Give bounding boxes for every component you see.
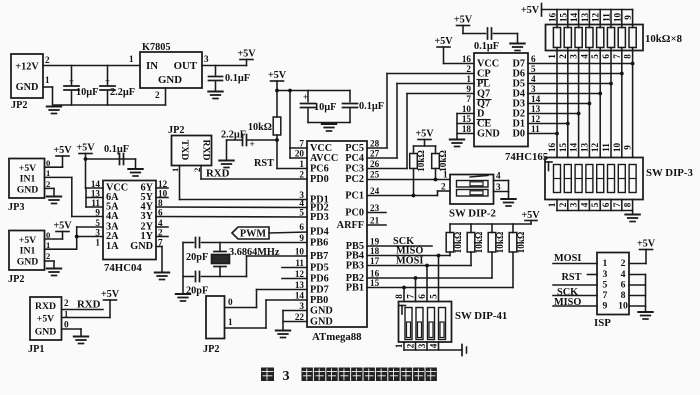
svg-text:25: 25 bbox=[370, 170, 380, 180]
svg-text:GND: GND bbox=[17, 185, 39, 196]
svg-text:ISP: ISP bbox=[594, 317, 611, 329]
svg-text:1: 1 bbox=[45, 75, 50, 85]
svg-text:PC1: PC1 bbox=[345, 191, 364, 202]
capacitor C5 0.1uF bbox=[343, 91, 384, 123]
power +5V at 74HC04 bbox=[76, 143, 95, 189]
wire bottom return rail bbox=[54, 104, 166, 106]
svg-text:11: 11 bbox=[601, 143, 611, 152]
svg-text:13: 13 bbox=[295, 280, 305, 290]
net label MISO bbox=[396, 246, 423, 257]
svg-text:3Y: 3Y bbox=[140, 211, 153, 222]
resistor R5 10k SPI pullup bbox=[467, 224, 484, 253]
ATmega88 PD5 PD6 stubs bbox=[282, 268, 307, 279]
power +5V at JP3 bbox=[53, 145, 72, 167]
caption figure 3 spray dust controller hardware circuit bbox=[261, 368, 437, 385]
power +5V at K7805 output bbox=[237, 49, 256, 66]
svg-text:18: 18 bbox=[462, 124, 472, 134]
svg-text:3: 3 bbox=[204, 54, 209, 64]
svg-text:11: 11 bbox=[531, 124, 540, 134]
svg-text:7: 7 bbox=[466, 94, 471, 104]
svg-text:1A: 1A bbox=[106, 241, 119, 252]
svg-text:6: 6 bbox=[601, 202, 611, 207]
wire JP3 pin0 to +5V bbox=[45, 166, 63, 168]
capacitor C10 0.1uF series bbox=[463, 28, 518, 52]
svg-text:PD6: PD6 bbox=[310, 274, 329, 285]
svg-text:+: + bbox=[303, 92, 308, 102]
svg-text:4: 4 bbox=[531, 74, 536, 84]
svg-text:9: 9 bbox=[299, 233, 304, 243]
svg-text:GND: GND bbox=[310, 317, 333, 328]
ATmega88 AVCC stub bbox=[290, 148, 307, 158]
shift register U4 74HC165 box bbox=[474, 53, 548, 163]
svg-text:3: 3 bbox=[282, 368, 289, 384]
svg-text:1: 1 bbox=[95, 238, 100, 248]
svg-text:2: 2 bbox=[466, 64, 471, 74]
svg-text:2: 2 bbox=[155, 90, 160, 100]
svg-text:PC3: PC3 bbox=[345, 164, 364, 175]
svg-text:GND: GND bbox=[35, 327, 57, 338]
connector JP2 serial box bbox=[168, 125, 212, 166]
svg-text:22: 22 bbox=[295, 312, 305, 322]
net label MOSI bbox=[396, 256, 423, 267]
wire PC1 to SW DIP-2 pin 2 bbox=[367, 191, 450, 196]
svg-text:+5V: +5V bbox=[53, 145, 72, 156]
svg-text:SW DIP-41: SW DIP-41 bbox=[455, 310, 507, 322]
wire PC4 to 74HC165 PL bbox=[367, 84, 474, 159]
wire K7805 GND pin 2 bbox=[165, 88, 167, 105]
resistor R2 10k bbox=[410, 150, 426, 172]
resistor R4 10k SPI pullup bbox=[446, 224, 463, 253]
svg-text:GND: GND bbox=[477, 129, 500, 140]
svg-text:9: 9 bbox=[623, 145, 633, 150]
svg-text:JP1: JP1 bbox=[28, 344, 45, 355]
svg-text:PD4: PD4 bbox=[310, 227, 329, 238]
svg-text:7: 7 bbox=[299, 139, 304, 149]
svg-text:IN1: IN1 bbox=[20, 246, 36, 257]
JP2 serial pin 1 label bbox=[170, 168, 180, 172]
svg-text:4: 4 bbox=[429, 343, 439, 348]
svg-text:0.1µF: 0.1µF bbox=[474, 41, 499, 52]
svg-text:1: 1 bbox=[46, 168, 50, 178]
SW DIP-2 switch element 2 bbox=[457, 190, 489, 197]
svg-text:10: 10 bbox=[612, 13, 622, 23]
svg-text:5: 5 bbox=[95, 218, 100, 228]
JP2 sensor pin 0 label bbox=[46, 230, 50, 240]
svg-text:JP2: JP2 bbox=[168, 125, 185, 136]
svg-text:13: 13 bbox=[580, 13, 590, 23]
JP1 pin 1 label bbox=[64, 309, 68, 319]
svg-text:D0: D0 bbox=[512, 129, 525, 140]
svg-text:2.2µF: 2.2µF bbox=[110, 87, 135, 98]
svg-text:K7805: K7805 bbox=[142, 42, 170, 53]
ground below C10 bbox=[510, 44, 525, 51]
svg-text:12: 12 bbox=[531, 114, 541, 124]
wire +12V rail JP2 to K7805 IN bbox=[43, 65, 140, 67]
svg-text:0.1µF: 0.1µF bbox=[225, 73, 250, 84]
wire PC3 to 74HC165 Q7 bbox=[367, 94, 474, 169]
svg-text:16: 16 bbox=[370, 269, 380, 279]
svg-text:8: 8 bbox=[623, 54, 633, 59]
svg-text:15: 15 bbox=[558, 143, 568, 153]
svg-text:2: 2 bbox=[621, 258, 626, 269]
resistor R7 10k SPI pullup bbox=[509, 224, 526, 253]
connector JP1 box bbox=[28, 297, 62, 355]
74HC165 grounded pins bracket bbox=[457, 114, 474, 140]
wire 74HC04 VCC bracket pins 14 13 11 bbox=[86, 188, 104, 207]
ground below C7 bbox=[128, 169, 143, 176]
wire DIP-2 pins to ground bbox=[494, 181, 509, 199]
svg-text:+5V: +5V bbox=[268, 70, 287, 81]
wire PB5 SCK stub bbox=[367, 245, 432, 247]
svg-text:4: 4 bbox=[579, 54, 589, 59]
svg-text:10kΩ: 10kΩ bbox=[248, 122, 272, 133]
svg-text:AVCC: AVCC bbox=[310, 153, 338, 164]
wire JP2 pin0 to +5V bbox=[45, 238, 63, 240]
svg-text:15: 15 bbox=[462, 114, 472, 124]
svg-text:26: 26 bbox=[370, 159, 380, 169]
svg-text:PC4: PC4 bbox=[345, 153, 364, 164]
regulator U3 K7805 box bbox=[140, 42, 202, 88]
svg-text:13: 13 bbox=[531, 104, 541, 114]
wire JP2 sensor GND bbox=[45, 261, 55, 268]
SW DIP-3 bottom pins and ground rail bbox=[547, 200, 633, 215]
JP2 sensor pin 2 label bbox=[46, 251, 50, 261]
svg-text:+5V: +5V bbox=[19, 235, 36, 246]
svg-text:MOSI: MOSI bbox=[554, 253, 581, 264]
svg-text:3: 3 bbox=[496, 182, 501, 192]
JP3 pin 0 label bbox=[46, 158, 50, 168]
JP2 sensor pin 1 label bbox=[46, 240, 50, 250]
svg-text:1: 1 bbox=[466, 74, 471, 84]
svg-text:GND: GND bbox=[17, 257, 39, 268]
wire K7805 OUT to +5V bbox=[202, 65, 247, 67]
74HC04 right pin numbers bbox=[158, 179, 168, 248]
74HC04 left pin numbers bbox=[91, 179, 101, 248]
svg-text:+: + bbox=[250, 139, 255, 149]
svg-text:74HC165: 74HC165 bbox=[505, 151, 548, 163]
junction dots data bus staircase bbox=[555, 62, 634, 136]
svg-text:9: 9 bbox=[623, 15, 633, 20]
wire branch to ATmega VCC bbox=[288, 89, 292, 148]
wire R2 to PC1 line bbox=[412, 169, 416, 198]
resistor R1 10k reset pullup bbox=[248, 117, 281, 135]
wire PC2 to SW DIP-2 pin 1 bbox=[367, 179, 450, 181]
SW DIP-2 pin 3 label bbox=[496, 182, 501, 192]
svg-text:5: 5 bbox=[603, 280, 608, 291]
svg-text:+: + bbox=[69, 76, 74, 86]
74HC04 output stubs 6Y 5Y 2Y 1Y bbox=[156, 188, 168, 237]
svg-text:2: 2 bbox=[46, 251, 50, 261]
svg-text:PC2: PC2 bbox=[345, 174, 364, 185]
svg-text:+5V: +5V bbox=[637, 239, 656, 250]
svg-text:PB1: PB1 bbox=[346, 283, 364, 294]
wire +5V branch bbox=[275, 89, 350, 93]
hex inverter U2 74HC04 box bbox=[103, 181, 156, 275]
svg-text:4: 4 bbox=[299, 198, 304, 208]
capacitor C2 2.2uF bbox=[100, 66, 135, 106]
wire JP2 pin0 to PD7 bbox=[225, 290, 308, 308]
JP2 bottom pin 0 label bbox=[228, 297, 233, 307]
svg-text:9: 9 bbox=[95, 208, 100, 218]
wire resistor tops bracket bbox=[414, 146, 436, 154]
svg-text:+5V: +5V bbox=[237, 49, 256, 60]
svg-text:SW DIP-3: SW DIP-3 bbox=[646, 167, 693, 179]
svg-text:18: 18 bbox=[370, 246, 380, 256]
svg-text:+5V: +5V bbox=[415, 129, 434, 140]
SW DIP-2 pin 2 label bbox=[441, 182, 446, 192]
wire RXD to PD0 bbox=[201, 166, 307, 180]
capacitor C9 20pF bottom bbox=[183, 272, 247, 297]
svg-text:PD5: PD5 bbox=[310, 263, 329, 274]
wires ISP even pins to ground rail bbox=[629, 275, 646, 312]
svg-text:9: 9 bbox=[603, 301, 608, 312]
power +5V at ISP bbox=[629, 239, 656, 264]
svg-text:12: 12 bbox=[295, 269, 305, 279]
capacitor C8 20pF top bbox=[183, 238, 307, 264]
svg-text:10kΩ: 10kΩ bbox=[474, 232, 484, 254]
wire 74HC04 GND to ground bbox=[156, 247, 162, 273]
svg-text:1: 1 bbox=[547, 202, 557, 207]
svg-text:+5V: +5V bbox=[454, 15, 473, 26]
svg-text:2: 2 bbox=[45, 55, 50, 65]
net label SCK bbox=[393, 236, 414, 247]
svg-text:10kΩ: 10kΩ bbox=[453, 232, 463, 254]
ground below SW DIP-2 bbox=[501, 199, 516, 206]
svg-text:JP2: JP2 bbox=[8, 274, 25, 285]
JP2 serial pin 2 label bbox=[192, 168, 202, 172]
svg-text:10: 10 bbox=[462, 104, 472, 114]
capacitor C3 0.1uF at K7805 output bbox=[209, 66, 250, 92]
connector JP2 sensor box bbox=[8, 231, 45, 286]
svg-text:RST: RST bbox=[254, 158, 274, 169]
svg-text:1: 1 bbox=[129, 54, 134, 64]
svg-text:7: 7 bbox=[612, 54, 622, 59]
net label MISO at ISP bbox=[553, 297, 597, 308]
svg-text:7: 7 bbox=[612, 202, 622, 207]
JP2 pin 2 label bbox=[45, 55, 50, 65]
svg-text:14: 14 bbox=[531, 94, 541, 104]
ATmega88 AREF stub bbox=[367, 224, 386, 226]
ground below JP2 bbox=[47, 107, 62, 114]
svg-text:1: 1 bbox=[394, 343, 404, 348]
svg-text:1: 1 bbox=[547, 54, 557, 59]
JP3 pin 1 label bbox=[46, 168, 50, 178]
svg-text:3: 3 bbox=[569, 54, 579, 59]
connector J1 ISP box bbox=[594, 253, 629, 330]
svg-text:5: 5 bbox=[590, 54, 600, 59]
microcontroller U1 ATmega88 box bbox=[307, 141, 367, 343]
svg-text:RXD: RXD bbox=[35, 301, 56, 312]
capacitor C4 10uF bbox=[301, 91, 337, 123]
wire JP3 IN1 to 74HC04 4A bbox=[45, 177, 104, 216]
connector JP2 (+12V input) box bbox=[11, 54, 43, 111]
svg-text:0.1µF: 0.1µF bbox=[359, 101, 384, 112]
svg-text:10kΩ: 10kΩ bbox=[416, 150, 426, 172]
power +5V decoupling at top bbox=[454, 15, 473, 34]
K7805 pin 3 label bbox=[204, 54, 209, 64]
ground below ISP bbox=[638, 312, 653, 319]
power +5V at resistor pack bbox=[521, 4, 633, 17]
resistor R3 10k bbox=[432, 150, 448, 172]
wire cap bottoms bracket bbox=[308, 122, 350, 124]
svg-text:IN1: IN1 bbox=[20, 174, 36, 185]
svg-text:6: 6 bbox=[601, 54, 611, 59]
svg-text:+5V: +5V bbox=[434, 36, 453, 47]
svg-text:10µF: 10µF bbox=[314, 102, 336, 113]
power +5V main rail bbox=[268, 70, 287, 117]
ground below C4 C5 bbox=[322, 124, 337, 131]
svg-text:3: 3 bbox=[569, 202, 579, 207]
switch SW DIP-41 box bbox=[399, 302, 508, 343]
svg-text:10: 10 bbox=[618, 301, 628, 312]
ground below SW DIP-3 bbox=[625, 215, 640, 222]
wire TXD to PD1 bbox=[180, 166, 308, 200]
svg-text:19: 19 bbox=[370, 237, 380, 247]
switch SW DIP-2 box bbox=[449, 175, 496, 220]
svg-text:27: 27 bbox=[370, 149, 380, 159]
net label SCK at ISP bbox=[553, 287, 597, 298]
svg-text:4A: 4A bbox=[106, 211, 119, 222]
svg-text:23: 23 bbox=[370, 203, 380, 213]
svg-text:10kΩ: 10kΩ bbox=[495, 232, 505, 254]
svg-text:15: 15 bbox=[558, 13, 568, 23]
svg-text:14: 14 bbox=[569, 13, 579, 23]
svg-text:11: 11 bbox=[295, 258, 304, 268]
svg-text:ATmega88: ATmega88 bbox=[312, 331, 362, 343]
svg-text:PB3: PB3 bbox=[346, 261, 364, 272]
svg-text:6: 6 bbox=[531, 54, 536, 64]
wire PB1 to R7 bbox=[367, 252, 513, 289]
svg-text:GND: GND bbox=[310, 306, 333, 317]
wire JP1 +5V pin bbox=[62, 317, 111, 319]
svg-text:SW DIP-2: SW DIP-2 bbox=[449, 208, 496, 220]
svg-text:1: 1 bbox=[443, 170, 448, 180]
svg-text:RXD: RXD bbox=[77, 299, 101, 311]
svg-text:3: 3 bbox=[95, 228, 100, 238]
K7805 pin 2 label bbox=[155, 90, 160, 100]
ground below 74HC04 GND bbox=[155, 273, 170, 280]
wire 74HC04 4Y to ATmega PD2 bbox=[156, 206, 307, 209]
connector JP3 box bbox=[8, 159, 45, 214]
svg-text:JP2: JP2 bbox=[203, 344, 220, 355]
svg-text:6: 6 bbox=[417, 294, 427, 299]
ground below ATmega88 bbox=[276, 331, 291, 338]
ATmega88 GND bracket bbox=[283, 311, 307, 331]
svg-text:10: 10 bbox=[612, 143, 622, 153]
svg-text:2: 2 bbox=[406, 343, 416, 348]
svg-text:5: 5 bbox=[299, 208, 304, 218]
svg-text:15: 15 bbox=[370, 278, 380, 288]
wire PB3 MOSI to R5 bbox=[367, 252, 471, 267]
svg-text:PWM: PWM bbox=[240, 229, 267, 240]
svg-text:PB7: PB7 bbox=[310, 251, 328, 262]
svg-text:5: 5 bbox=[590, 202, 600, 207]
resistor R6 10k SPI pullup bbox=[488, 224, 505, 253]
ground below crystal rail bbox=[176, 294, 191, 301]
svg-text:+5V: +5V bbox=[76, 143, 95, 154]
capacitor C1 10uF bbox=[64, 66, 98, 106]
power +5V at 74HC165 VCC bbox=[434, 36, 474, 64]
svg-text:IN: IN bbox=[146, 60, 158, 72]
wire 74HC04 3Y to ATmega PD3 bbox=[156, 216, 307, 219]
svg-text:6: 6 bbox=[299, 222, 304, 232]
svg-text:2: 2 bbox=[441, 182, 446, 192]
power +5V above DIP-2 resistors bbox=[415, 129, 434, 147]
net label RST bbox=[254, 158, 274, 169]
svg-text:14: 14 bbox=[295, 291, 305, 301]
svg-text:17: 17 bbox=[370, 256, 380, 266]
svg-text:14: 14 bbox=[569, 143, 579, 153]
wire R3 to PC2 line bbox=[434, 169, 438, 182]
ATmega88 left pin numbers bbox=[295, 139, 305, 323]
wire PB2 to R6 bbox=[367, 252, 492, 280]
wire PC5 to 74HC165 CP bbox=[367, 74, 474, 149]
svg-text:PC6: PC6 bbox=[310, 164, 329, 175]
svg-text:13: 13 bbox=[579, 143, 589, 153]
svg-text:+12V: +12V bbox=[15, 62, 39, 73]
ATmega88 PC0 stub bbox=[367, 212, 386, 214]
svg-text:10kΩ×8: 10kΩ×8 bbox=[645, 33, 683, 45]
ground below C3 bbox=[208, 92, 223, 99]
svg-text:JP3: JP3 bbox=[8, 202, 25, 213]
wire JP1 GND bbox=[62, 329, 82, 336]
svg-text:PD3: PD3 bbox=[310, 212, 329, 223]
svg-text:+5V: +5V bbox=[521, 5, 540, 16]
svg-text:12: 12 bbox=[591, 13, 601, 23]
JP1 pin 2 label bbox=[64, 298, 69, 308]
wire crystal left rail bbox=[182, 243, 184, 294]
svg-text:7: 7 bbox=[406, 294, 416, 299]
power +5V at JP2 sensor bbox=[53, 221, 72, 240]
connector JP2 bottom box bbox=[203, 296, 225, 355]
JP2 bottom pin 1 label bbox=[228, 317, 233, 327]
svg-text:PB6: PB6 bbox=[310, 238, 328, 249]
svg-text:2: 2 bbox=[558, 54, 568, 59]
resistor pack top leads and pin numbers bbox=[548, 10, 634, 28]
svg-text:5: 5 bbox=[429, 294, 439, 299]
SW DIP-3 top pin numbers bbox=[547, 143, 633, 153]
svg-text:0: 0 bbox=[64, 320, 69, 330]
svg-text:+5V: +5V bbox=[19, 163, 36, 174]
svg-text:OUT: OUT bbox=[174, 60, 198, 72]
svg-text:8: 8 bbox=[394, 294, 404, 299]
ISP pin3 stub bbox=[588, 274, 598, 276]
svg-text:3: 3 bbox=[603, 269, 608, 280]
svg-text:28: 28 bbox=[370, 139, 380, 149]
svg-text:8: 8 bbox=[623, 202, 633, 207]
resistor pack bottom leads to SW DIP-3 bbox=[547, 48, 633, 158]
ground below JP2 sensor bbox=[47, 269, 62, 276]
svg-text:+5V: +5V bbox=[521, 210, 540, 221]
svg-text:1: 1 bbox=[603, 258, 608, 269]
svg-text:1: 1 bbox=[228, 317, 233, 327]
wire JP2 pin1 to PB0 bbox=[225, 300, 308, 328]
net label RST at ISP bbox=[553, 272, 597, 285]
svg-text:11: 11 bbox=[602, 13, 612, 22]
wire JP3 GND bbox=[45, 188, 55, 196]
svg-text:2: 2 bbox=[299, 170, 304, 180]
wire JP2 IN1 to 74HC04 inputs bbox=[45, 227, 104, 249]
SW DIP-2 pin 4 label bbox=[496, 171, 501, 181]
74HC165 left pin numbers bbox=[462, 54, 472, 134]
svg-text:PD7: PD7 bbox=[310, 285, 329, 296]
svg-text:4: 4 bbox=[496, 171, 501, 181]
ground below 74HC165 bracket bbox=[450, 140, 465, 147]
wire R1 to RST node bbox=[276, 135, 278, 169]
svg-text:1: 1 bbox=[170, 168, 180, 172]
svg-text:21: 21 bbox=[370, 216, 380, 226]
svg-text:+: + bbox=[105, 76, 110, 86]
